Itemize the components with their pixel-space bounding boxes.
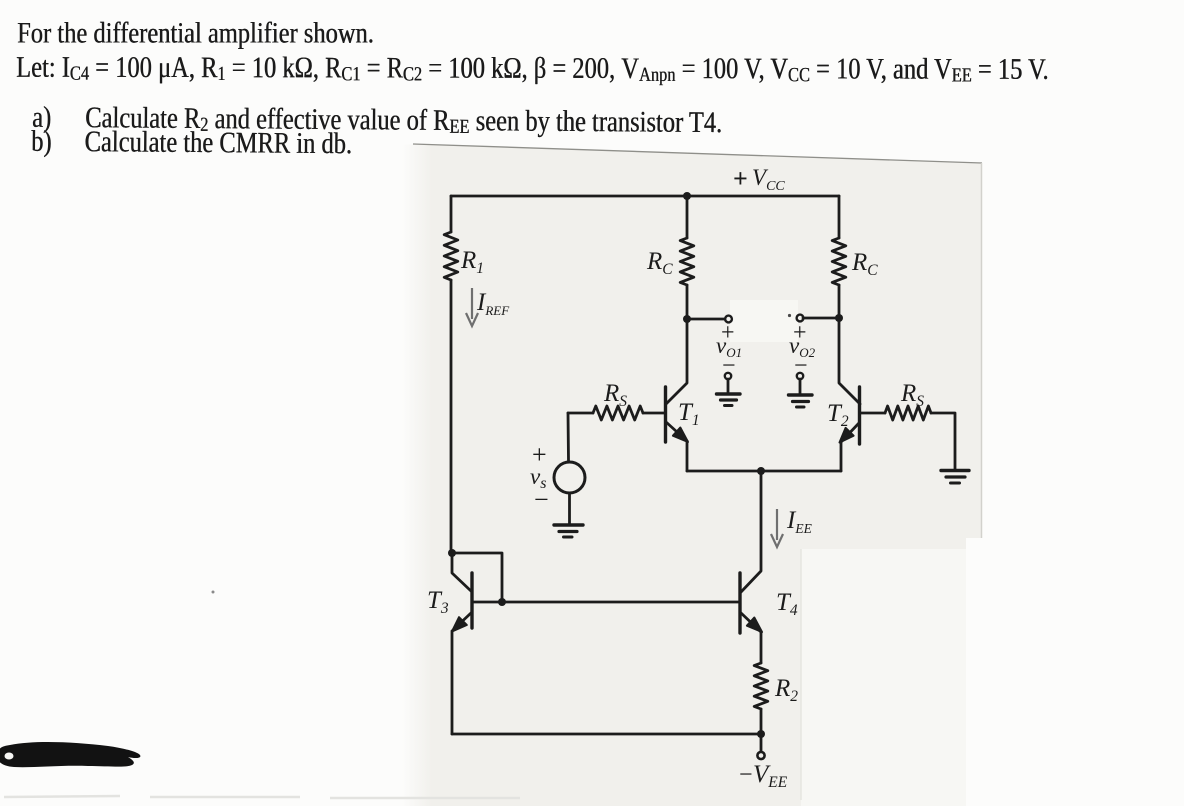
svg-text:+: + [733,164,748,193]
redaction mark [0,742,140,767]
ground (vo2) [799,379,802,394]
paste right edge [981,163,983,538]
paste top edge [413,144,982,163]
node: T3/T4 base junction [498,598,506,606]
wire: top VCC rail [451,195,839,198]
wire: node to vo1 terminal [687,318,725,321]
problem statement line 1 [17,17,374,51]
terminal -VEE (open circle) [757,752,764,759]
wire: T2 base to RS right [860,412,885,415]
wire: node to vo2 terminal [803,317,839,320]
terminal vo1 (open circle) [725,316,732,323]
wire: R2 to bottom rail [760,709,763,734]
wire: left vertical top (rail to R1) [450,196,453,232]
node: T3 collector tie [448,549,456,557]
transistor T1 bar [664,387,667,442]
white-out left edge [800,549,802,800]
node: bottom rail junction [757,730,765,738]
wire: left vertical (R1 to T3 collector node) [450,280,453,553]
T3 emitter with arrow [453,613,471,630]
node: vo1 collector node [683,315,691,323]
wire: RS to T1 base [643,412,664,415]
svg-text:−: − [722,353,736,379]
resistor R1 [444,232,458,280]
ground (vs) [554,523,583,526]
wire: T1 base from RS [568,412,593,415]
terminal vo2 minus (open circle) [797,373,803,379]
transistor T2 bar [858,387,861,444]
wire: stub to -VEE terminal [760,734,763,751]
node: vo2 collector node [835,314,843,322]
wire: RC left to collector node [686,285,689,319]
wire: RC right to collector node [838,285,841,318]
transistor T3 bar [470,573,473,628]
wire: RS right to ground corner [931,413,955,469]
svg-text:−: − [534,485,549,514]
wire: T4 emitter to R2 [760,632,763,663]
wire: T3 collector-base tie [452,553,502,602]
current arrow IEE [771,509,783,547]
wire: IEE down to T4 [741,471,761,592]
pasted figure paper [432,145,982,806]
ground (vo1) [727,379,730,392]
resistor R2 [754,663,768,709]
node: rail tap for RC left [683,192,691,200]
faint cut-off text at page bottom [4,796,520,798]
wire: bottom rail [452,733,761,736]
wire: left RC drop from rail [686,196,689,238]
transistor T4 bar [738,573,741,633]
wire: T2 emitter down [840,442,843,471]
wire: T3 emitter down to bottom rail [451,631,454,734]
T1 emitter with arrow [666,422,687,441]
problem statement line 2 [16,51,1049,87]
T4 base wire [473,601,739,604]
resistor RC (right) [832,238,846,285]
resistor RC (left) [680,238,694,285]
ground (RS right) [941,469,969,472]
resistor RS (left) [593,406,643,420]
node: IEE tap [757,467,765,475]
white-out lighter area bottom right of figure [801,549,966,806]
wire: T3 collector diagonal [452,553,471,591]
wire: vs to ground [568,493,571,524]
terminal vo1 minus (open circle) [725,373,731,379]
T2 emitter with arrow [841,423,859,442]
wire: collector down to T2 [839,318,860,404]
stray pen dot on page [212,591,215,594]
current arrow IREF [466,288,478,326]
wire: vs source riser [567,413,570,461]
svg-text:−: − [739,762,753,788]
terminal vo2 (open circle) [797,315,804,322]
T4 emitter with arrow [741,613,761,632]
item b) [31,125,352,162]
wire: common emitter rail [687,470,841,473]
svg-text:−: − [794,353,808,379]
wire: collector down to T1 [666,319,687,404]
resistor RS (right) [885,406,931,420]
wire: right RC drop from rail [838,196,841,238]
item a) [32,101,722,141]
scan speck left of vo2 terminal [788,314,791,317]
source vs circle [554,462,585,493]
wire: T1 emitter down [686,441,689,471]
white-out patch between vo1 and vo2 [730,300,798,342]
